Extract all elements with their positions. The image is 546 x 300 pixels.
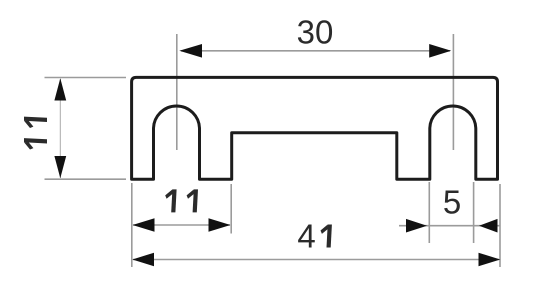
svg-text:4: 4 bbox=[297, 218, 315, 255]
svg-text:30: 30 bbox=[297, 14, 334, 51]
svg-text:5: 5 bbox=[443, 183, 461, 220]
